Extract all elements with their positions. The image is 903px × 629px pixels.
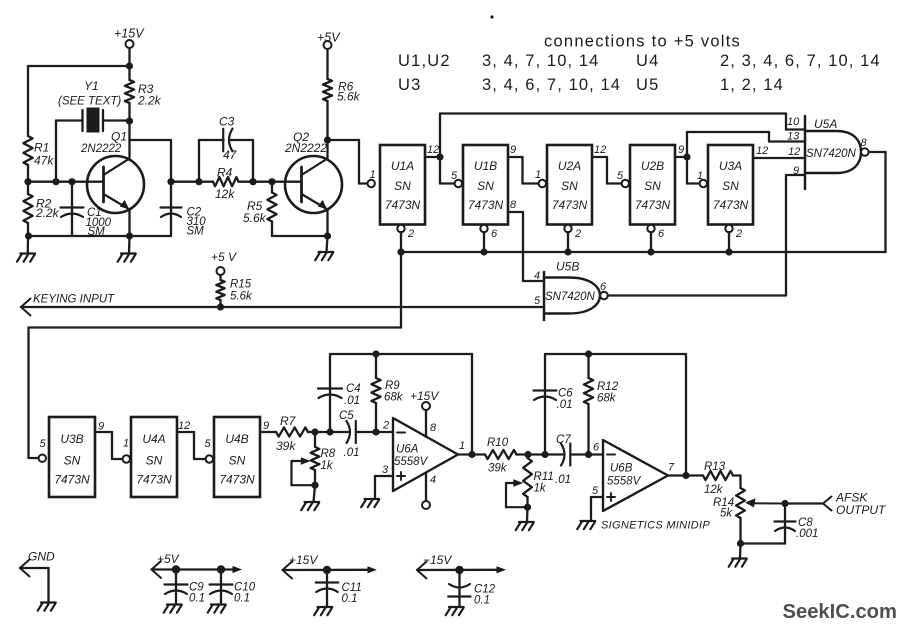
wire R1 to base node [24,165,31,194]
svg-text:2, 3, 4, 6, 7, 10, 14: 2, 3, 4, 6, 7, 10, 14 [720,52,881,70]
svg-text:1k: 1k [321,460,334,472]
svg-text:47: 47 [223,148,238,162]
capacitor C3 47 bypass [195,115,256,186]
svg-text:.001: .001 [796,528,818,540]
svg-text:2N2222: 2N2222 [80,143,122,155]
svg-text:39k: 39k [488,463,508,475]
svg-text:13: 13 [787,131,800,143]
svg-text:5.6k: 5.6k [337,90,361,104]
node GND input [20,550,55,603]
wire U2B pin9 to U3A pin1 and U5A pin13 [675,132,805,187]
resistor R9 68k [371,354,403,436]
wire U5B output pin6 [608,294,786,296]
svg-text:+15V: +15V [410,389,439,403]
svg-text:C3: C3 [219,115,235,129]
wire U4B pin9 output [260,420,276,432]
capacitor C11 0.1 [316,570,362,607]
node KEYING INPUT [21,294,544,316]
svg-text:R10: R10 [487,437,509,449]
ground below R8 [301,485,319,510]
ground below Q2 emitter [315,236,333,260]
svg-text:6: 6 [658,228,665,240]
resistor R2 2.2k [23,194,59,223]
svg-text:5k: 5k [720,508,733,520]
svg-text:6: 6 [600,281,607,293]
svg-text:1k: 1k [534,483,547,495]
svg-text:GND: GND [28,550,55,564]
svg-text:C6: C6 [558,388,573,400]
svg-text:5.6k: 5.6k [230,291,253,303]
svg-text:U3: U3 [398,76,422,94]
flip-flop U1B SN7473N [463,145,508,225]
svg-text:68k: 68k [597,393,617,405]
transistor Q1 2N2222 [80,130,144,237]
wire U4A pin12 to U4B pin5 [177,420,213,463]
svg-text:U1,U2: U1,U2 [398,52,451,70]
wire U6A pin3 to ground [361,476,393,507]
svg-text:+5 V: +5 V [211,250,237,264]
op-amp U6B 5558V [593,440,668,511]
wire bus to bottom row flip-flops [29,252,402,462]
resistor R13 12k [703,461,741,496]
capacitor C5 .01 [339,410,393,459]
svg-text:1: 1 [697,170,703,182]
wire U6A feedback bus [330,350,476,458]
ground below R11 [516,507,534,530]
svg-text:8: 8 [861,137,868,149]
capacitor C4 .01 feedback [318,354,361,432]
pin 8 of U6A to +15V [410,389,439,437]
capacitor C1 1000 SM [61,182,112,238]
svg-text:12k: 12k [704,484,724,496]
resistor R15 5.6k [216,279,253,308]
flip-flop U3A SN7473N [708,145,753,225]
wire U1A pin12 to U1B pin5 and U5A pin10 rail [425,114,786,188]
svg-text:SIGNETICS MINIDIP: SIGNETICS MINIDIP [601,520,710,532]
resistor R1 47k [23,136,54,168]
svg-text:U6A: U6A [396,444,419,456]
capacitor C7 .01 [555,434,603,486]
flip-flop U2A SN7473N [547,145,592,225]
svg-text:5558V: 5558V [394,456,429,468]
svg-text:3: 3 [382,464,389,476]
svg-text:U5A: U5A [814,117,837,131]
svg-text:.01: .01 [344,395,360,407]
svg-text:1: 1 [370,169,376,181]
wire U5A output pin8 to clear bus [869,152,886,252]
pin 6 of U1B to bus [480,225,498,252]
node +5V for R15 [211,250,237,280]
svg-text:1, 2, 14: 1, 2, 14 [720,76,784,94]
svg-text:2.2k: 2.2k [137,94,162,108]
svg-text:C4: C4 [346,383,361,395]
resistor R3 2.2k [125,66,162,158]
svg-text:5: 5 [534,295,541,307]
svg-text:SN: SN [394,179,411,193]
svg-text:U3A: U3A [719,159,742,173]
pin 2 of U2A to bus [564,225,581,252]
svg-text:1: 1 [535,169,541,181]
logo SeekIC.com [783,601,897,623]
svg-text:SN: SN [561,179,578,193]
ground below C11 [314,607,332,615]
svg-text:4: 4 [430,474,436,486]
svg-text:R1: R1 [34,141,49,155]
op-amp U6A 5558V [382,418,458,491]
svg-text:R12: R12 [597,381,619,393]
svg-text:SN7420N: SN7420N [545,291,596,303]
potentiometer R11 1k [506,455,554,511]
svg-text:5558V: 5558V [607,476,642,488]
resistor R12 68k [584,354,619,458]
svg-text:9: 9 [263,420,269,432]
svg-text:R9: R9 [385,380,400,392]
capacitor C6 .01 feedback [534,354,574,455]
svg-text:SeekIC.com: SeekIC.com [783,601,897,623]
svg-text:U4A: U4A [142,432,165,446]
ground below C9 [164,605,182,613]
capacitor C12 0.1 [448,570,496,607]
svg-text:SN: SN [64,454,81,468]
svg-text:2: 2 [735,228,742,240]
svg-text:9: 9 [510,144,516,156]
svg-text:7473N: 7473N [468,198,504,212]
svg-text:.01: .01 [557,399,573,411]
svg-text:U3B: U3B [60,432,83,446]
wire U6A output pin1 [458,440,485,455]
resistor R4 12k [171,166,302,202]
svg-text:.01: .01 [555,474,571,486]
pin 2 of U1A to bus [397,225,414,252]
wire top rail to R1 [28,62,133,136]
pin 4 of U6A [422,473,436,510]
capacitor C9 0.1 [165,570,206,605]
wire U6B feedback bus [545,350,690,479]
svg-text:SN: SN [477,179,494,193]
pin 6 of U2B to bus [647,225,665,252]
svg-text:5: 5 [592,485,599,497]
resistor R6 5.6k [323,79,361,144]
svg-text:R13: R13 [704,461,726,473]
svg-text:47k: 47k [34,154,54,168]
svg-text:12: 12 [788,146,800,158]
svg-text:12: 12 [427,144,439,156]
svg-text:6: 6 [491,228,498,240]
flip-flop U4A SN7473N [131,417,177,497]
svg-text:2: 2 [407,228,414,240]
svg-text:7473N: 7473N [385,198,421,212]
text SIGNETICS MINIDIP [601,520,710,532]
svg-text:7: 7 [668,462,675,474]
ground below C12 [446,607,464,615]
svg-text:5.6k: 5.6k [243,211,267,225]
svg-text:SN: SN [229,454,246,468]
svg-text:7473N: 7473N [219,473,255,487]
node AFSK OUTPUT [781,491,887,518]
svg-text:U5: U5 [636,76,660,94]
svg-text:0.1: 0.1 [189,593,205,605]
wire U5A pin9 from U5B output [786,175,805,296]
svg-text:5: 5 [40,438,47,450]
flip-flop U2B SN7473N [630,145,675,225]
svg-text:5: 5 [451,170,458,182]
ground below Q1 emitter [118,236,136,262]
svg-text:7473N: 7473N [713,198,749,212]
wire U3B pin9 to U4A pin1 [95,421,130,463]
svg-text:0.1: 0.1 [474,595,490,607]
svg-text:Y1: Y1 [84,79,99,93]
svg-text:U1B: U1B [474,159,497,173]
svg-text:5: 5 [205,438,212,450]
wire clear/preset bus below flip-flops [397,248,885,255]
node +5V rail [152,552,243,578]
wire U1B pin9 to U2A pin1 [508,144,546,187]
transistor Q2 2N2222 [284,130,342,236]
svg-text:U2B: U2B [641,159,664,173]
svg-text:SN7420N: SN7420N [806,148,857,160]
svg-text:U6B: U6B [610,463,633,475]
wire U6B pin5 to ground [577,485,603,529]
NAND gate U5B SN7420N [534,260,608,321]
wire U6B output pin7 [668,462,703,476]
svg-text:7473N: 7473N [136,473,172,487]
node +15V rail [283,553,378,579]
svg-text:9: 9 [98,421,104,433]
svg-text:1: 1 [123,438,129,450]
svg-text:2: 2 [382,420,389,432]
resistor R10 39k [485,437,564,475]
svg-text:U4: U4 [636,52,660,70]
svg-text:7473N: 7473N [552,198,588,212]
svg-text:+5V: +5V [157,552,180,566]
wire U2A pin12 to U2B pin5 [592,144,629,187]
svg-text:+15V: +15V [289,553,318,567]
resistor R5 5.6k [243,182,331,240]
svg-text:SM: SM [88,226,106,238]
ground below C10 [208,605,226,613]
capacitor C8 .001 [741,504,819,544]
flip-flop U4B SN7473N [214,417,260,497]
svg-text:Q1: Q1 [111,130,127,144]
svg-text:R11: R11 [534,471,554,483]
ground for GND input [38,603,56,611]
svg-text:U5B: U5B [556,260,579,274]
wire U3A pin12 to U5A pin12 [753,145,805,158]
wire Q1 collector branch to C2 node [130,140,175,185]
svg-text:KEYING INPUT: KEYING INPUT [33,294,115,306]
svg-text:C5: C5 [339,410,354,422]
svg-text:9: 9 [678,144,684,156]
wire Q2 collector to U1A pin 1 [328,140,376,187]
wire U5A pin10 entry [786,114,805,130]
flip-flop U1A SN7473N [380,145,425,225]
svg-text:2N2222: 2N2222 [284,141,327,155]
svg-text:OUTPUT: OUTPUT [836,503,887,517]
svg-text:3, 4, 6, 7, 10, 14: 3, 4, 6, 7, 10, 14 [482,76,621,94]
svg-text:U1A: U1A [391,159,414,173]
svg-text:1: 1 [459,440,465,452]
svg-text:SN: SN [146,454,163,468]
svg-text:−15V: −15V [423,553,452,567]
wire U1B pin8 to U5B pin4 [508,199,544,281]
svg-text:SM: SM [187,226,205,238]
resistor R7 39k [276,414,348,453]
node +5V for Q2 [317,31,341,80]
svg-text:12: 12 [594,144,606,156]
svg-text:12k: 12k [215,187,235,201]
node speck artifact [490,15,493,18]
svg-text:68k: 68k [384,392,404,404]
svg-text:connections to +5 volts: connections to +5 volts [544,33,741,51]
svg-text:2: 2 [574,228,581,240]
svg-text:C7: C7 [556,434,571,446]
svg-text:R8: R8 [321,448,336,460]
svg-text:R7: R7 [280,414,297,428]
potentiometer R14 5k [713,488,785,547]
crystal Y1 (SEE TEXT) [56,79,130,182]
svg-text:(SEE TEXT): (SEE TEXT) [58,96,121,108]
svg-text:U2A: U2A [558,159,581,173]
svg-text:+15V: +15V [114,27,145,41]
wire bottom rail left [25,223,171,240]
flip-flop U3B SN7473N [49,417,95,497]
svg-text:SN: SN [722,179,739,193]
svg-text:5: 5 [617,170,624,182]
svg-text:0.1: 0.1 [342,593,358,605]
svg-text:10: 10 [787,116,800,128]
capacitor C10 0.1 [210,570,256,605]
svg-text:U4B: U4B [225,432,248,446]
svg-text:7473N: 7473N [635,198,671,212]
svg-text:8: 8 [430,422,437,434]
svg-text:7473N: 7473N [54,473,90,487]
svg-text:12: 12 [756,145,768,157]
svg-text:6: 6 [593,442,600,454]
capacitor C2 310 SM [161,182,207,238]
ground below R2 [17,236,35,262]
svg-text:2.2k: 2.2k [35,206,60,220]
pin 2 of U3A to bus [725,225,742,252]
node -15V rail [417,553,506,579]
svg-text:.01: .01 [344,447,360,459]
svg-text:R4: R4 [217,166,233,180]
NAND gate U5A SN7420N [787,116,869,189]
potentiometer R8 1k [292,432,336,489]
text connections to +5 volts [398,33,881,95]
svg-text:R15: R15 [230,279,252,291]
svg-text:12: 12 [178,420,190,432]
svg-text:SN: SN [644,179,661,193]
svg-text:4: 4 [534,270,540,282]
ground below R14 and C8 [729,544,747,567]
svg-text:0.1: 0.1 [234,593,250,605]
node: +15V supply top [114,27,145,67]
svg-text:3, 4, 7, 10, 14: 3, 4, 7, 10, 14 [482,52,599,70]
svg-text:39k: 39k [276,439,296,453]
svg-text:8: 8 [510,199,517,211]
wire Q1 base rail [28,178,104,185]
